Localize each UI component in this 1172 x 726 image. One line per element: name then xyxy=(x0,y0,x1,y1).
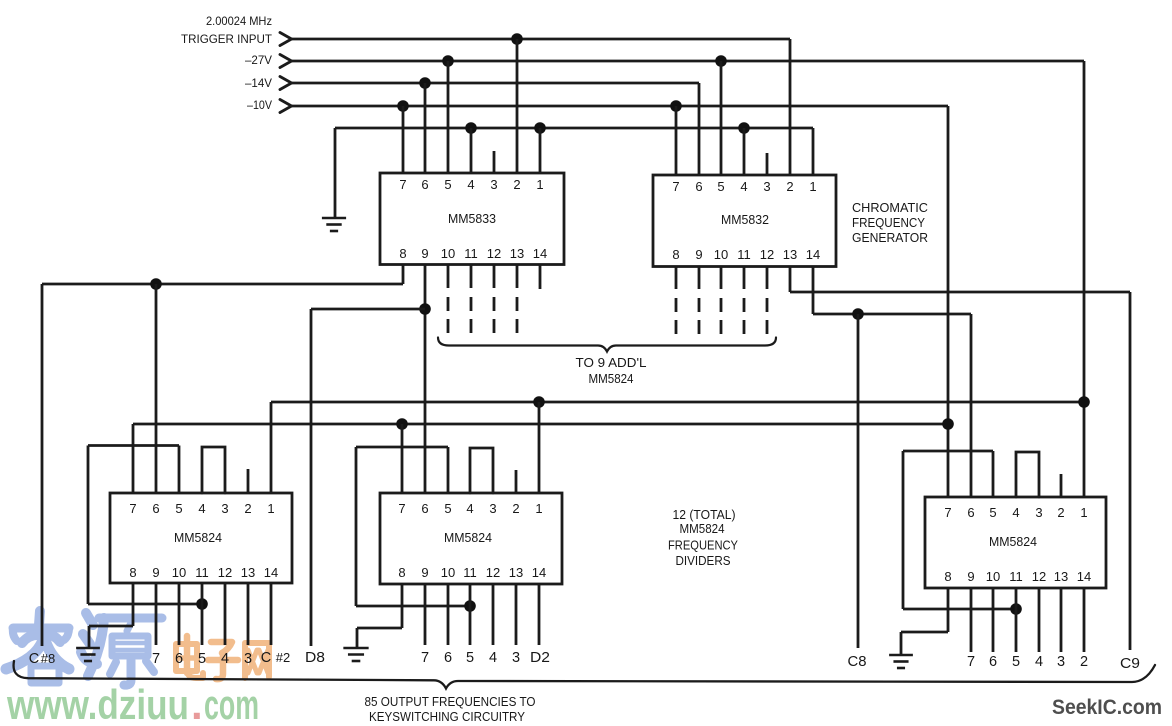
svg-text:8: 8 xyxy=(399,246,406,261)
IC U2 MM5832 body xyxy=(653,175,836,267)
svg-text:14: 14 xyxy=(533,246,547,261)
ground G2 xyxy=(76,647,100,650)
wire U3 pin6 drop xyxy=(155,284,158,493)
svg-text:13: 13 xyxy=(241,565,255,580)
watermark chinese chars (decorative) xyxy=(39,611,40,625)
IC U3 MM5824 body xyxy=(110,493,292,583)
svg-text:MM5824: MM5824 xyxy=(989,534,1037,549)
svg-text:7: 7 xyxy=(152,651,160,667)
node -14V / U1 pin6 xyxy=(419,77,431,89)
wire U5 pin13 output 3 xyxy=(1060,588,1063,652)
wire U4 pin7 drop xyxy=(401,424,404,493)
wire U3 pin10 output 6 xyxy=(178,583,181,645)
svg-text:4: 4 xyxy=(221,651,229,667)
wire U4 pin2 stub xyxy=(515,470,518,493)
svg-text:2: 2 xyxy=(786,179,793,194)
svg-text:14: 14 xyxy=(264,565,278,580)
node pin1 rail / U4 pin1 xyxy=(533,396,545,408)
svg-text:MM5833: MM5833 xyxy=(448,211,496,226)
svg-text:9: 9 xyxy=(967,569,974,584)
wire U4 pin12 output 4 xyxy=(492,584,495,645)
node pin1 rail / -27V xyxy=(1078,396,1090,408)
svg-text:12: 12 xyxy=(760,247,774,262)
IC U4 MM5824 body xyxy=(380,493,562,584)
svg-text:4: 4 xyxy=(1035,654,1043,670)
svg-text:7: 7 xyxy=(398,501,405,516)
svg-text:2: 2 xyxy=(512,501,519,516)
wire -27V rail to U3 pin1 xyxy=(291,60,1084,63)
wire U3 pin5 gnd loop xyxy=(178,446,181,494)
wire C#8 output drop xyxy=(41,284,44,646)
node C8 branch xyxy=(852,308,864,320)
svg-text:4: 4 xyxy=(740,179,747,194)
node -27V / U1 pin5 xyxy=(442,55,454,67)
node gnd / U1 pin1 xyxy=(534,122,546,134)
svg-text:3: 3 xyxy=(221,501,228,516)
svg-text:5: 5 xyxy=(198,651,206,667)
wire U2 pin14 to U5 pin6 xyxy=(812,266,815,314)
wire net C#8 horizontal xyxy=(42,283,403,286)
svg-text:6: 6 xyxy=(421,501,428,516)
svg-text:7: 7 xyxy=(129,501,136,516)
svg-text:MM5824: MM5824 xyxy=(680,521,725,536)
svg-text:MM5832: MM5832 xyxy=(721,212,769,227)
svg-text:2.00024 MHz: 2.00024 MHz xyxy=(206,14,272,28)
svg-text:4: 4 xyxy=(198,501,205,516)
node gnd / U2 pin4 xyxy=(738,122,750,134)
svg-text:14: 14 xyxy=(532,565,546,580)
svg-text:4: 4 xyxy=(467,177,474,192)
svg-text:7: 7 xyxy=(399,177,406,192)
svg-text:11: 11 xyxy=(195,565,209,580)
svg-text:GENERATOR: GENERATOR xyxy=(852,230,928,245)
wire U1 pin4 stub xyxy=(470,128,473,173)
svg-text:6: 6 xyxy=(444,650,452,666)
wire -10V rail to U5 pin7 xyxy=(291,105,948,108)
svg-text:10: 10 xyxy=(441,565,455,580)
wire U2 pin10 dashed output xyxy=(720,266,723,289)
wire U5 pin9 output 7 xyxy=(970,588,973,652)
wire U4 pin5 gnd loop xyxy=(447,447,450,493)
svg-text:com: com xyxy=(204,681,259,726)
wire U2 pin7 stub xyxy=(675,106,678,175)
svg-text:#8: #8 xyxy=(41,651,55,666)
wire U4 pin14 output D2 xyxy=(538,584,541,645)
wire U1 pin3 stub xyxy=(493,151,496,173)
wire U2 pin4 stub xyxy=(743,128,746,175)
svg-text:FREQUENCY: FREQUENCY xyxy=(852,215,925,230)
wire U2 pin5 stub xyxy=(720,61,723,175)
svg-text:6: 6 xyxy=(421,177,428,192)
svg-text:9: 9 xyxy=(695,247,702,262)
wire U4 pin10 output 6 xyxy=(447,584,450,645)
wire U1 pin8 drop xyxy=(402,264,405,284)
wire U1 pin11 dashed output xyxy=(470,264,473,288)
svg-text:4: 4 xyxy=(466,501,473,516)
svg-text:TO 9 ADD'L: TO 9 ADD'L xyxy=(576,356,647,370)
wire U4 pin8 gnd xyxy=(357,627,402,630)
wire U2 pin11 dashed output xyxy=(743,266,746,289)
wire U4 pin9 output 7 xyxy=(424,584,427,645)
svg-text:11: 11 xyxy=(737,247,751,262)
svg-text:12: 12 xyxy=(1032,569,1046,584)
svg-text:8: 8 xyxy=(129,565,136,580)
wire U1 pin9 to U4 pin6 xyxy=(424,264,427,493)
wire U2 pin12 dashed output xyxy=(766,266,769,289)
svg-text:C9: C9 xyxy=(1120,656,1140,672)
wire U5 pin10 output 6 xyxy=(992,588,995,652)
svg-text:#2: #2 xyxy=(276,650,290,665)
brace to 9 additional MM5824 xyxy=(438,338,776,352)
wire U5 pin8 gnd xyxy=(901,631,948,634)
wire U3 pin9 output 7 xyxy=(155,583,158,645)
svg-text:C: C xyxy=(261,650,271,666)
svg-text:5: 5 xyxy=(989,505,996,520)
svg-text:CHROMATIC: CHROMATIC xyxy=(852,200,928,215)
svg-text:3: 3 xyxy=(763,179,770,194)
svg-text:KEYSWITCHING CIRCUITRY: KEYSWITCHING CIRCUITRY xyxy=(369,709,525,724)
wire U3 pin4-pin3 loop xyxy=(202,447,225,493)
wire pin1 rail xyxy=(271,401,1084,404)
svg-text:FREQUENCY: FREQUENCY xyxy=(668,538,738,553)
input arrow -14V xyxy=(280,77,292,90)
svg-text:9: 9 xyxy=(152,565,159,580)
svg-text:3: 3 xyxy=(490,177,497,192)
svg-text:11: 11 xyxy=(1009,569,1023,584)
node TRIGGER / U1 pin2 xyxy=(511,33,523,45)
wire U4 pin13 output 3 xyxy=(515,584,518,645)
svg-text:11: 11 xyxy=(463,565,477,580)
svg-text:3: 3 xyxy=(1057,654,1065,670)
svg-text:1: 1 xyxy=(1080,505,1087,520)
svg-text:12: 12 xyxy=(486,565,500,580)
svg-text:.: . xyxy=(191,681,203,726)
input arrow TRIGGER xyxy=(280,33,292,46)
svg-text:8: 8 xyxy=(944,569,951,584)
node pin7 rail / U4 pin7 xyxy=(396,418,408,430)
input arrow -10V xyxy=(280,100,292,113)
node D8 / U1 pin9 xyxy=(419,303,431,315)
svg-text:4: 4 xyxy=(1012,505,1019,520)
svg-text:10: 10 xyxy=(172,565,186,580)
svg-text:7: 7 xyxy=(672,179,679,194)
svg-text:7: 7 xyxy=(421,650,429,666)
svg-text:2: 2 xyxy=(1057,505,1064,520)
svg-text:–14V: –14V xyxy=(245,76,272,90)
wire U1 pin1 stub xyxy=(539,128,542,173)
wire U5 pin4-pin3 loop xyxy=(1016,452,1039,497)
node gnd / U1 pin4 xyxy=(465,122,477,134)
wire C8 output drop xyxy=(857,314,860,648)
node pin7 rail / -10V xyxy=(942,418,954,430)
input arrow -27V xyxy=(280,55,292,68)
wire pin7 rail xyxy=(133,423,948,426)
node -27V / U2 pin5 xyxy=(715,55,727,67)
wire U3 pin8 gnd xyxy=(89,625,133,628)
wire U2 pin3 stub xyxy=(766,153,769,175)
svg-text:13: 13 xyxy=(510,246,524,261)
svg-text:–27V: –27V xyxy=(245,53,272,67)
svg-text:MM5824: MM5824 xyxy=(589,372,634,386)
wire U3 pin2 stub xyxy=(247,469,250,493)
svg-text:3: 3 xyxy=(512,650,520,666)
wire U1 pin13 dashed output xyxy=(516,264,519,288)
svg-text:9: 9 xyxy=(421,246,428,261)
node C#8 / U3 pin6 xyxy=(150,278,162,290)
svg-text:12 (TOTAL): 12 (TOTAL) xyxy=(673,507,736,522)
wire U5 pin2 stub xyxy=(1060,474,1063,497)
wire U1 pin6 stub xyxy=(424,83,427,173)
wire U2 pin9 dashed output xyxy=(698,266,701,289)
svg-text:85 OUTPUT FREQUENCIES TO: 85 OUTPUT FREQUENCIES TO xyxy=(365,694,536,709)
svg-text:1: 1 xyxy=(535,501,542,516)
svg-text:6: 6 xyxy=(152,501,159,516)
wire U1 pin10 dashed output xyxy=(447,264,450,288)
svg-text:6: 6 xyxy=(695,179,702,194)
wire U3 pin11 output 5 xyxy=(201,583,204,645)
svg-text:6: 6 xyxy=(175,651,183,667)
IC U1 MM5833 body xyxy=(380,173,564,265)
svg-text:D8: D8 xyxy=(305,650,325,666)
wire U1 pin5 stub xyxy=(447,61,450,173)
svg-text:10: 10 xyxy=(986,569,1000,584)
wire U5 pin5 gnd loop xyxy=(992,451,995,497)
wire -14V rail to U2 pin6 xyxy=(291,82,699,85)
svg-text:MM5824: MM5824 xyxy=(444,530,492,545)
node U5 pin11 gnd xyxy=(1010,603,1022,615)
wire U5 pin11 output 5 xyxy=(1015,588,1018,652)
svg-text:2: 2 xyxy=(1080,654,1088,670)
svg-text:2: 2 xyxy=(513,177,520,192)
svg-text:5: 5 xyxy=(717,179,724,194)
wire net D8 horizontal xyxy=(311,308,425,311)
wire U1 pin2 stub xyxy=(516,39,519,173)
svg-text:4: 4 xyxy=(489,650,497,666)
ground G4 xyxy=(889,654,913,657)
wire U5 pin14 output 2 xyxy=(1083,588,1086,652)
node -10V / U1 pin7 xyxy=(397,100,409,112)
IC U5 MM5824 body xyxy=(925,497,1106,588)
svg-text:5: 5 xyxy=(444,177,451,192)
wire TRIGGER INPUT to U2 pin2 xyxy=(291,38,790,41)
brace 85 output frequencies xyxy=(14,661,1155,689)
svg-text:11: 11 xyxy=(464,246,478,261)
wire ground rail top xyxy=(335,127,813,130)
svg-text:7: 7 xyxy=(967,654,975,670)
svg-text:1: 1 xyxy=(536,177,543,192)
svg-text:DIVIDERS: DIVIDERS xyxy=(676,553,731,568)
wire U1 pin12 dashed output xyxy=(493,264,496,288)
svg-text:3: 3 xyxy=(1035,505,1042,520)
wire D8 output drop xyxy=(310,309,313,646)
svg-text:5: 5 xyxy=(444,501,451,516)
wire U3 pin12 output 4 xyxy=(224,583,227,645)
svg-text:2: 2 xyxy=(244,501,251,516)
wire U5 gnd to pin11 xyxy=(903,608,1016,611)
wire U2 pin13 to C9 output xyxy=(789,266,792,292)
svg-text:8: 8 xyxy=(398,565,405,580)
svg-text:1: 1 xyxy=(267,501,274,516)
svg-text:6: 6 xyxy=(989,654,997,670)
svg-text:SeekIC.com: SeekIC.com xyxy=(1052,696,1162,719)
ground G3 xyxy=(343,647,368,650)
wire U4 pin11 output 5 xyxy=(469,584,472,645)
svg-text:C8: C8 xyxy=(848,654,867,670)
svg-text:C: C xyxy=(29,651,39,667)
svg-text:9: 9 xyxy=(421,565,428,580)
svg-text:13: 13 xyxy=(1054,569,1068,584)
wire U4 pin4-pin3 loop xyxy=(470,448,493,493)
svg-text:MM5824: MM5824 xyxy=(174,530,222,545)
wire U1 pin14 stub xyxy=(539,264,542,289)
svg-text:3: 3 xyxy=(489,501,496,516)
svg-text:13: 13 xyxy=(783,247,797,262)
svg-text:14: 14 xyxy=(806,247,820,262)
wire U2 pin8 dashed output xyxy=(675,266,678,289)
svg-text:5: 5 xyxy=(1012,654,1020,670)
wire U3 pin14 output C#2 xyxy=(270,583,273,645)
svg-text:TRIGGER INPUT: TRIGGER INPUT xyxy=(181,32,273,46)
svg-text:10: 10 xyxy=(441,246,455,261)
svg-text:7: 7 xyxy=(944,505,951,520)
svg-text:13: 13 xyxy=(509,565,523,580)
svg-text:14: 14 xyxy=(1077,569,1091,584)
svg-text:3: 3 xyxy=(244,651,252,667)
wire U1 pin7 stub xyxy=(402,106,405,173)
svg-text:5: 5 xyxy=(175,501,182,516)
node U3 pin11 gnd xyxy=(196,598,208,610)
svg-text:D2: D2 xyxy=(530,650,550,666)
wire U5 pin12 output 4 xyxy=(1038,588,1041,652)
node U4 pin11 gnd xyxy=(464,600,476,612)
wire U3 gnd to pin11 xyxy=(88,603,202,606)
wire U3 pin13 output 3 xyxy=(247,583,250,645)
svg-text:8: 8 xyxy=(672,247,679,262)
svg-text:1: 1 xyxy=(809,179,816,194)
svg-text:–10V: –10V xyxy=(247,98,272,112)
ground G1 xyxy=(322,217,346,220)
wire U4 pin1 drop xyxy=(538,402,541,493)
svg-text:12: 12 xyxy=(487,246,501,261)
svg-text:5: 5 xyxy=(466,650,474,666)
node -10V / U2 pin7 xyxy=(670,100,682,112)
svg-text:6: 6 xyxy=(967,505,974,520)
wire U4 gnd to pin11 xyxy=(356,605,470,608)
svg-text:www.dziuu: www.dziuu xyxy=(6,681,189,726)
svg-text:12: 12 xyxy=(218,565,232,580)
svg-text:10: 10 xyxy=(714,247,728,262)
